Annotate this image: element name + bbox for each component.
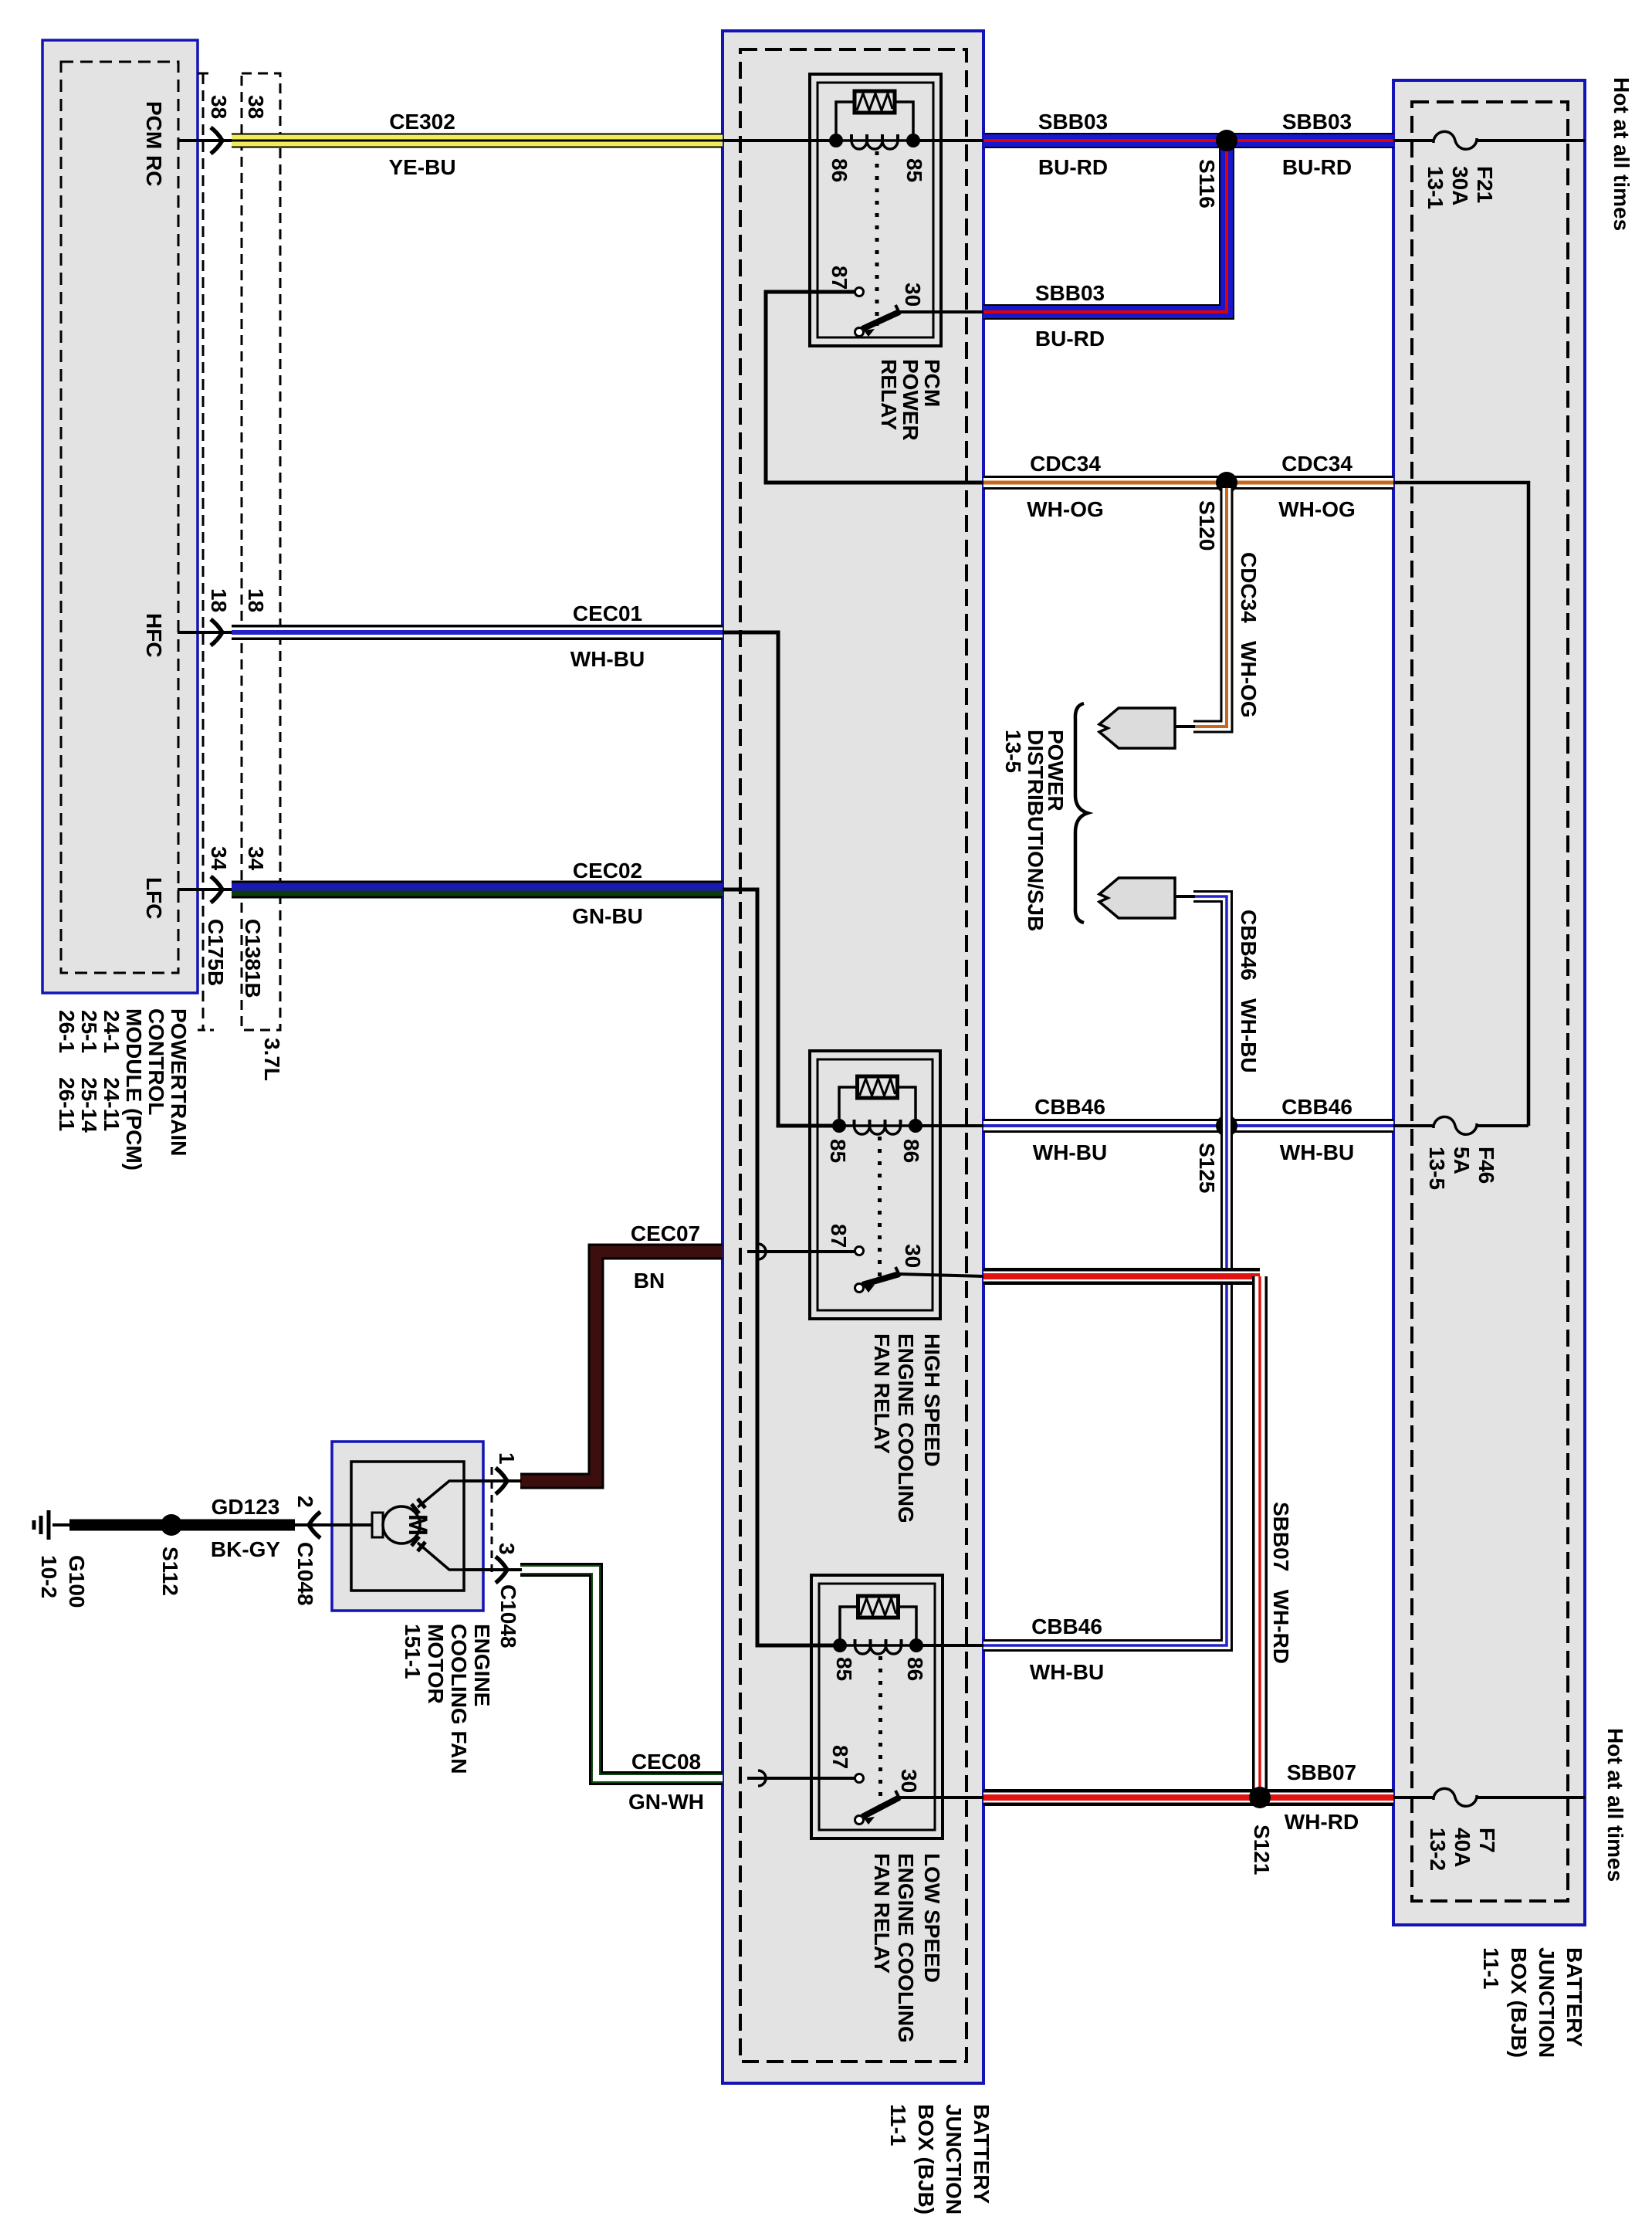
svg-text:WH-OG: WH-OG bbox=[1027, 497, 1104, 521]
svg-text:WH-BU: WH-BU bbox=[1033, 1140, 1107, 1164]
svg-text:40A: 40A bbox=[1451, 1828, 1474, 1867]
svg-text:G100: G100 bbox=[65, 1555, 89, 1608]
svg-text:3: 3 bbox=[495, 1543, 519, 1555]
motor lead to pin 1 bbox=[418, 1481, 498, 1507]
svg-text:SBB07 WH-RD: SBB07 WH-RD bbox=[1269, 1502, 1293, 1664]
svg-text:MODULE (PCM): MODULE (PCM) bbox=[122, 1008, 146, 1171]
relay: low speed engine cooling fan relay bbox=[811, 1575, 943, 1838]
svg-text:GD123: GD123 bbox=[212, 1495, 280, 1519]
PCM inner dashed outline bbox=[61, 62, 178, 973]
svg-text:PCM: PCM bbox=[920, 359, 944, 407]
svg-text:87: 87 bbox=[827, 1224, 851, 1248]
svg-text:LFC: LFC bbox=[142, 877, 166, 919]
svg-text:13-2: 13-2 bbox=[1426, 1828, 1450, 1871]
svg-text:151-1: 151-1 bbox=[401, 1624, 425, 1679]
svg-text:BU-RD: BU-RD bbox=[1038, 155, 1108, 179]
svg-text:WH-OG: WH-OG bbox=[1278, 497, 1356, 521]
battery junction box (BJB) center bbox=[723, 31, 983, 2083]
svg-text:SBB03: SBB03 bbox=[1282, 110, 1352, 134]
svg-text:YE-BU: YE-BU bbox=[388, 155, 455, 179]
svg-text:30A: 30A bbox=[1448, 166, 1472, 205]
svg-text:CEC07: CEC07 bbox=[631, 1222, 700, 1245]
svg-text:CBB46: CBB46 bbox=[1034, 1095, 1105, 1119]
connector arrow pin 34 bbox=[211, 876, 222, 903]
svg-text:S116: S116 bbox=[1195, 159, 1219, 208]
wire CE302 inside BJB to relay pin 86 bbox=[723, 139, 836, 142]
wire CEC01 pin lead from PCM pin 18 bbox=[178, 631, 232, 634]
svg-text:F46: F46 bbox=[1474, 1147, 1498, 1184]
svg-text:HIGH SPEED: HIGH SPEED bbox=[920, 1333, 944, 1467]
wire CEC02 pin lead from PCM pin 34 bbox=[178, 888, 232, 891]
wire CDC34 from PCM power relay pin 87 bbox=[766, 292, 983, 483]
svg-text:RELAY: RELAY bbox=[877, 359, 901, 431]
svg-text:BK-GY: BK-GY bbox=[211, 1537, 281, 1561]
svg-text:CDC34 WH-OG: CDC34 WH-OG bbox=[1237, 552, 1261, 718]
svg-text:24-1 24-11: 24-1 24-11 bbox=[100, 1010, 124, 1131]
svg-text:C1048: C1048 bbox=[496, 1584, 520, 1648]
svg-text:HFC: HFC bbox=[142, 613, 166, 658]
wire CEC01 inside BJB to high speed relay coil bbox=[723, 632, 839, 1126]
svg-text:86: 86 bbox=[903, 1657, 927, 1681]
svg-text:CDC34: CDC34 bbox=[1030, 452, 1101, 476]
connector C1048 dashed boundary bbox=[491, 1467, 493, 1577]
motor lead to pin 3 bbox=[418, 1543, 498, 1570]
svg-text:86: 86 bbox=[828, 158, 851, 182]
connector arrow pin 1 bbox=[496, 1468, 507, 1494]
wire CBB46 WH-BU high speed relay 86 to fuse F46 bbox=[916, 1124, 983, 1127]
wire CDC34 inside right BJB down to fuse F46 bbox=[1393, 483, 1528, 1126]
wire CBB46 WH-BU branch: SJB connector down through S125 to low speed relay 86 bbox=[983, 896, 1227, 1645]
splice S112 bbox=[161, 1514, 182, 1536]
svg-text:87: 87 bbox=[828, 266, 851, 290]
svg-text:S125: S125 bbox=[1195, 1143, 1219, 1193]
svg-text:CDC34: CDC34 bbox=[1281, 452, 1352, 476]
power distribution SJB connector (upper) bbox=[1099, 708, 1175, 748]
svg-text:13-5: 13-5 bbox=[1001, 730, 1025, 773]
svg-text:JUNCTION: JUNCTION bbox=[1535, 1947, 1559, 2058]
svg-text:S112: S112 bbox=[158, 1547, 182, 1596]
engine cooling fan motor M bbox=[372, 1467, 498, 1577]
wire SBB07 WH-RD low speed relay 30 to fuse F7 bbox=[899, 1796, 983, 1799]
powertrain control module (PCM) box bbox=[42, 40, 198, 993]
svg-text:M: M bbox=[403, 1514, 432, 1536]
svg-text:SBB03: SBB03 bbox=[1035, 281, 1105, 305]
svg-text:DISTRIBUTION/SJB: DISTRIBUTION/SJB bbox=[1024, 730, 1048, 931]
fuse F21 30A bbox=[1434, 131, 1477, 149]
svg-text:34: 34 bbox=[244, 846, 268, 871]
wire GD123 BK-GY ground to fan motor pin 2 bbox=[69, 1520, 295, 1531]
battery junction box (BJB) right bbox=[1393, 80, 1585, 1925]
svg-text:85: 85 bbox=[832, 1657, 856, 1681]
BJB center inner dashed outline bbox=[740, 49, 966, 2062]
svg-text:CE302: CE302 bbox=[389, 110, 455, 134]
svg-text:LOW SPEED: LOW SPEED bbox=[920, 1853, 944, 1983]
svg-text:S121: S121 bbox=[1250, 1825, 1274, 1875]
svg-text:18: 18 bbox=[244, 588, 268, 612]
svg-text:13-1: 13-1 bbox=[1423, 166, 1447, 209]
svg-text:SBB07: SBB07 bbox=[1287, 1760, 1356, 1784]
svg-text:11-1: 11-1 bbox=[886, 2104, 910, 2147]
wire CE302 pin lead from PCM pin 38 bbox=[178, 139, 232, 142]
wire CEC01 WH-BU bbox=[232, 625, 723, 640]
splice S120 bbox=[1216, 472, 1237, 493]
power distribution SJB connector (lower) bbox=[1099, 878, 1175, 918]
svg-text:ENGINE COOLING: ENGINE COOLING bbox=[894, 1853, 918, 2043]
svg-text:BOX (BJB): BOX (BJB) bbox=[914, 2104, 938, 2214]
svg-text:SBB03: SBB03 bbox=[1038, 110, 1108, 134]
wire SBB03 BU-RD relay 85 to fuse F21 bbox=[913, 139, 983, 142]
svg-text:30: 30 bbox=[901, 283, 925, 307]
svg-text:38: 38 bbox=[207, 95, 231, 119]
connector arrow pin 38 bbox=[211, 127, 222, 154]
svg-text:25-1 25-14: 25-1 25-14 bbox=[77, 1010, 101, 1133]
svg-text:C1381B: C1381B bbox=[241, 919, 265, 998]
wire CDC34 WH-OG bbox=[983, 476, 1393, 490]
svg-text:FAN RELAY: FAN RELAY bbox=[870, 1333, 894, 1454]
svg-text:18: 18 bbox=[207, 588, 231, 612]
svg-text:WH-BU: WH-BU bbox=[1030, 1660, 1104, 1684]
svg-text:F7: F7 bbox=[1475, 1828, 1499, 1853]
connector arrow pin 3 bbox=[496, 1557, 507, 1583]
svg-text:38: 38 bbox=[244, 95, 268, 119]
svg-text:5A: 5A bbox=[1450, 1147, 1474, 1174]
svg-text:GN-BU: GN-BU bbox=[572, 904, 643, 928]
wire SBB07 WH-RD high speed relay 30 to S121 bbox=[899, 1274, 983, 1276]
svg-text:BN: BN bbox=[634, 1269, 665, 1293]
motor inner box bbox=[351, 1462, 464, 1591]
wire CEC08 GN-WH fan motor pin 3 to low speed relay 87 bbox=[747, 1777, 859, 1780]
fuse F46 5A bbox=[1434, 1116, 1477, 1134]
svg-text:2: 2 bbox=[293, 1496, 317, 1508]
svg-text:S120: S120 bbox=[1195, 500, 1219, 551]
svg-text:CBB46 WH-BU: CBB46 WH-BU bbox=[1237, 910, 1261, 1073]
in-line connector C1381B dashed box bbox=[242, 73, 280, 1030]
wire SBB03 BU-RD branch S116 down to relay pin 30 bbox=[983, 141, 1227, 312]
svg-text:GN-WH: GN-WH bbox=[628, 1790, 704, 1814]
svg-text:POWER: POWER bbox=[899, 359, 922, 441]
svg-text:Hot at all times: Hot at all times bbox=[1610, 77, 1633, 231]
svg-text:ENGINE: ENGINE bbox=[470, 1624, 494, 1706]
svg-text:1: 1 bbox=[495, 1452, 519, 1465]
svg-text:3.7L: 3.7L bbox=[260, 1038, 284, 1081]
svg-text:BATTERY: BATTERY bbox=[1562, 1947, 1586, 2047]
svg-text:11-1: 11-1 bbox=[1479, 1947, 1503, 1990]
wire CEC07 BN high speed relay 87 to fan motor pin 1 bbox=[747, 1250, 859, 1253]
svg-text:CONTROL: CONTROL bbox=[144, 1008, 168, 1115]
svg-text:30: 30 bbox=[897, 1769, 921, 1793]
svg-text:85: 85 bbox=[826, 1139, 850, 1163]
svg-text:CEC02: CEC02 bbox=[573, 859, 642, 883]
svg-text:34: 34 bbox=[207, 846, 231, 871]
in-line connector at BJB boundary bbox=[758, 1244, 766, 1259]
svg-text:ENGINE COOLING: ENGINE COOLING bbox=[894, 1333, 918, 1523]
splice S116 bbox=[1216, 130, 1237, 151]
engine cooling fan motor box bbox=[332, 1442, 483, 1611]
relay: PCM power relay bbox=[810, 74, 941, 346]
svg-text:WH-BU: WH-BU bbox=[570, 647, 645, 671]
wire CEC02 inside BJB to low speed relay coil bbox=[723, 889, 840, 1645]
svg-text:C1048: C1048 bbox=[293, 1542, 317, 1606]
relay: high speed engine cooling fan relay bbox=[810, 1051, 940, 1319]
svg-text:86: 86 bbox=[899, 1139, 923, 1163]
svg-text:CBB46: CBB46 bbox=[1031, 1615, 1102, 1638]
svg-text:13-5: 13-5 bbox=[1425, 1147, 1449, 1190]
connector arrow pin 18 bbox=[211, 619, 222, 646]
fuse F7 40A bbox=[1434, 1788, 1477, 1806]
wire CE302 YE-BU bbox=[232, 134, 723, 148]
svg-text:JUNCTION: JUNCTION bbox=[942, 2104, 966, 2214]
wire CEC02 GN-BU bbox=[232, 881, 723, 899]
svg-text:WH-BU: WH-BU bbox=[1280, 1140, 1354, 1164]
svg-text:FAN RELAY: FAN RELAY bbox=[870, 1853, 894, 1974]
svg-text:BU-RD: BU-RD bbox=[1282, 155, 1352, 179]
in-line connector at BJB boundary bbox=[758, 1770, 766, 1786]
svg-text:MOTOR: MOTOR bbox=[424, 1624, 448, 1704]
svg-text:F21: F21 bbox=[1473, 166, 1497, 203]
svg-text:26-1 26-11: 26-1 26-11 bbox=[55, 1010, 79, 1131]
svg-text:30: 30 bbox=[901, 1244, 925, 1268]
ground G100 bbox=[52, 1523, 71, 1527]
svg-text:POWERTRAIN: POWERTRAIN bbox=[167, 1008, 191, 1156]
svg-text:10-2: 10-2 bbox=[37, 1555, 61, 1598]
svg-text:C175B: C175B bbox=[204, 919, 228, 986]
brace for POWER DISTRIBUTION/SJB bbox=[1075, 703, 1088, 923]
svg-text:85: 85 bbox=[902, 158, 926, 182]
wire CDC34 WH-OG branch S120 to SJB connector bbox=[1193, 488, 1227, 727]
svg-text:BATTERY: BATTERY bbox=[970, 2104, 994, 2204]
splice S125 bbox=[1216, 1115, 1237, 1137]
svg-text:Hot at all times: Hot at all times bbox=[1603, 1728, 1627, 1882]
svg-text:CEC01: CEC01 bbox=[573, 601, 642, 625]
connector C175B dashed boundary line bbox=[202, 73, 205, 1030]
svg-text:87: 87 bbox=[828, 1745, 852, 1769]
svg-text:WH-RD: WH-RD bbox=[1285, 1810, 1359, 1834]
BJB right inner dashed outline bbox=[1412, 102, 1568, 1901]
svg-text:COOLING FAN: COOLING FAN bbox=[447, 1624, 471, 1774]
connector arrow pin 2 bbox=[309, 1512, 320, 1538]
svg-text:BOX (BJB): BOX (BJB) bbox=[1507, 1947, 1531, 2058]
svg-text:CEC08: CEC08 bbox=[631, 1750, 701, 1774]
splice S121 bbox=[1249, 1787, 1271, 1808]
svg-text:PCM RC: PCM RC bbox=[142, 101, 166, 186]
svg-text:CBB46: CBB46 bbox=[1281, 1095, 1352, 1119]
svg-text:BU-RD: BU-RD bbox=[1035, 327, 1105, 351]
